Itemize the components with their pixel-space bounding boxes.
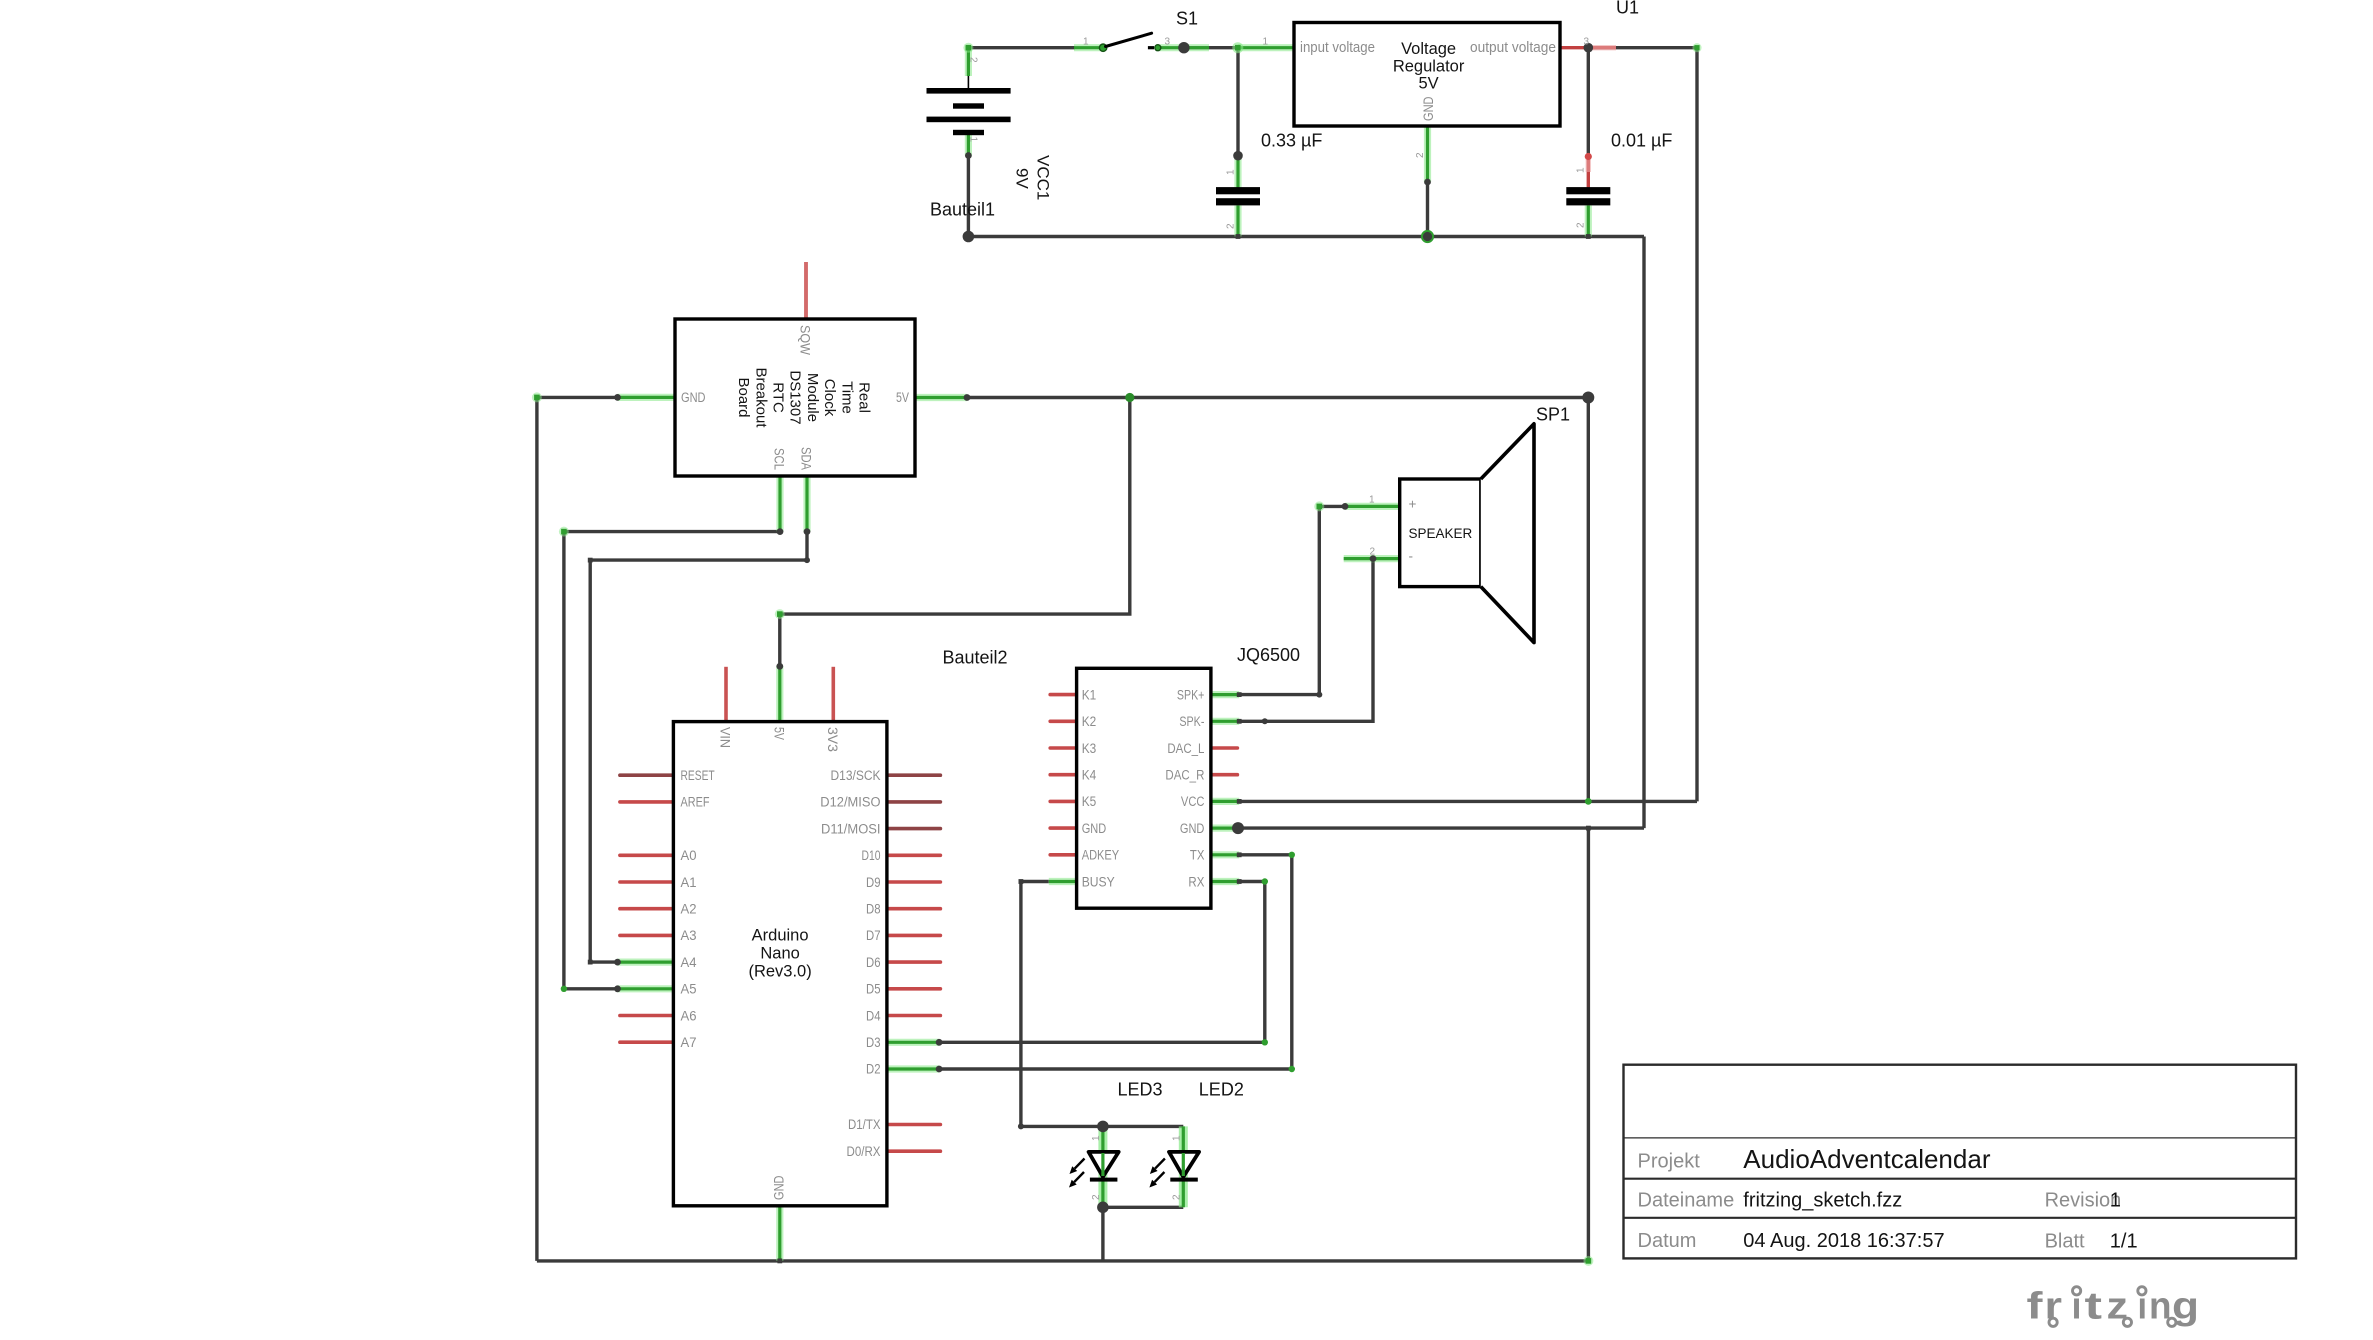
battery pin 1 green [965, 131, 972, 156]
switch pin 1 green [1074, 44, 1101, 51]
svg-text:D6: D6 [866, 955, 881, 970]
node C1 top dot [1233, 151, 1243, 161]
svg-text:Arduino: Arduino [752, 927, 809, 945]
svg-text:fritzing_sketch.fzz: fritzing_sketch.fzz [1743, 1190, 1902, 1212]
labels JQ right pins [1165, 687, 1204, 889]
RTC module box [675, 319, 915, 476]
C1 pin 2 green [1234, 206, 1241, 237]
svg-text:-: - [1409, 549, 1414, 564]
svg-text:AudioAdventcalendar: AudioAdventcalendar [1743, 1144, 1991, 1174]
label switch pin 3 [1165, 36, 1171, 47]
svg-text:A2: A2 [681, 902, 697, 917]
svg-text:1: 1 [1576, 167, 1587, 173]
node RX corner green [1262, 878, 1268, 884]
node C1 bottom bus [1236, 234, 1241, 239]
arduino D8 pin [887, 907, 941, 911]
svg-text:1: 1 [967, 137, 978, 143]
label arduino name [748, 927, 811, 981]
wire top bus corner down to JQ gnd line [1642, 237, 1645, 829]
wire LED cathode to bottom bus [1101, 1207, 1104, 1261]
label VCC1 9V [1013, 155, 1053, 200]
label RTC SDA [799, 447, 814, 470]
wire JQ VCC line [1239, 800, 1697, 803]
node SPK+ pin end [1237, 692, 1242, 697]
svg-text:3: 3 [1584, 36, 1590, 47]
svg-text:3V3: 3V3 [825, 727, 840, 752]
label S1 [1176, 9, 1198, 29]
svg-text:5V: 5V [1419, 75, 1439, 93]
node TX pin end [1237, 852, 1242, 857]
svg-text:GND: GND [681, 390, 706, 405]
label C1 pin 2 [1225, 223, 1236, 229]
svg-text:A7: A7 [681, 1035, 697, 1050]
svg-text:K1: K1 [1082, 687, 1097, 702]
arduino A5 pin green [618, 985, 674, 992]
svg-text:3: 3 [1165, 36, 1171, 47]
svg-text:9V: 9V [1013, 168, 1032, 189]
fritzing logo [2027, 1286, 2200, 1328]
svg-text:D12/MISO: D12/MISO [820, 795, 880, 810]
node SPK- pin end [1237, 719, 1242, 724]
node U1 output corner green [1692, 43, 1701, 52]
svg-text:Datum: Datum [1638, 1230, 1697, 1252]
label battery pin 1 [967, 137, 978, 143]
JQ K1 pin [1050, 693, 1076, 697]
svg-text:2: 2 [1415, 152, 1426, 158]
svg-text:A5: A5 [681, 982, 697, 997]
wire 5V rail RTC to SP corner [967, 396, 1588, 399]
arduino AREF pin [620, 800, 674, 804]
svg-text:RX: RX [1188, 874, 1204, 889]
speaker pin 2 green [1344, 555, 1400, 562]
regulator gnd pin green [1424, 126, 1431, 182]
label LED2 pin 1 [1171, 1135, 1182, 1141]
svg-text:Bauteil2: Bauteil2 [943, 648, 1008, 668]
svg-text:D11/MOSI: D11/MOSI [821, 821, 881, 836]
title block texts [1638, 1144, 2138, 1253]
svg-text:DAC_R: DAC_R [1165, 768, 1204, 783]
label regulator pin 1 [1263, 36, 1269, 47]
wire JQ GND line [1238, 826, 1644, 829]
LED2 green wire [1179, 1126, 1188, 1207]
LED2 symbol [1149, 1152, 1199, 1188]
label speaker plus [1409, 497, 1417, 512]
wire output node down to C2 [1587, 48, 1590, 156]
svg-text:K3: K3 [1082, 741, 1097, 756]
node SDA pin end [804, 528, 811, 535]
wire JQ TX to arduino D2 [939, 855, 1292, 1069]
node arduino 5V corner green [775, 609, 785, 619]
wire SPK+ net [1239, 506, 1345, 694]
wire 5V corner down to JQ VCC line [1587, 398, 1590, 802]
JQ K5 pin [1050, 800, 1076, 804]
svg-text:2: 2 [1576, 222, 1587, 228]
arduino A0 pin [620, 853, 674, 857]
label C2 pin 2 [1576, 222, 1587, 228]
arduino VIN pin red [724, 667, 728, 722]
RTC SDA pin green [803, 476, 810, 532]
wire left gnd rail down [535, 397, 538, 1261]
svg-text:A1: A1 [681, 875, 697, 890]
svg-text:D5: D5 [866, 982, 881, 997]
label SPEAKER [1409, 526, 1473, 541]
regulator input pin green [1238, 44, 1294, 51]
svg-text:Board: Board [735, 377, 752, 417]
C2 pin 2 green [1585, 206, 1592, 237]
svg-text:1: 1 [1091, 1135, 1102, 1141]
wire SCL net [564, 532, 780, 989]
svg-text:1: 1 [1171, 1135, 1182, 1141]
label JQ6500 [1237, 645, 1300, 665]
arduino A7 pin [620, 1040, 674, 1044]
label regulator pin 2 [1415, 152, 1426, 158]
svg-text:1/1: 1/1 [2110, 1231, 2138, 1253]
svg-text:1: 1 [1369, 495, 1375, 506]
battery pin 2 green [965, 46, 972, 76]
svg-text:D9: D9 [866, 875, 881, 890]
node JQ gnd big dot [1232, 822, 1244, 834]
wire regulator output to corner [1588, 46, 1697, 49]
svg-text:SCL: SCL [772, 448, 787, 470]
arduino D12/MISO pin [887, 800, 941, 804]
JQ SPK- pin green [1211, 718, 1239, 725]
C1 pin 1 green [1234, 156, 1241, 188]
svg-text:Dateiname: Dateiname [1638, 1190, 1735, 1212]
arduino nano box [673, 722, 887, 1206]
arduino GND pin green wire [776, 1206, 783, 1261]
svg-text:Regulator: Regulator [1393, 57, 1465, 75]
arduino 5V pin green [776, 666, 783, 721]
wire JQ RX to arduino D3 [939, 882, 1265, 1043]
svg-text:0.33 µF: 0.33 µF [1261, 130, 1322, 150]
node SPK+ upper corner green [1314, 501, 1324, 511]
svg-text:output voltage: output voltage [1470, 40, 1556, 56]
node switch output dot [1178, 42, 1189, 53]
label 0.33 uF [1261, 130, 1322, 150]
label RTC 5V [896, 390, 909, 405]
svg-text:AREF: AREF [681, 795, 710, 810]
labels JQ left pins [1082, 687, 1120, 889]
node 5V rail SP corner big dot [1582, 392, 1594, 404]
svg-text:04 Aug. 2018 16:37:57: 04 Aug. 2018 16:37:57 [1743, 1230, 1944, 1252]
node regulator input junction [1232, 42, 1243, 53]
node RTC gnd corner green [532, 392, 542, 402]
voltage regulator U1 box [1294, 23, 1560, 127]
svg-text:Projekt: Projekt [1638, 1150, 1701, 1172]
arduino D2 pin green [887, 1065, 939, 1072]
svg-text:LED3: LED3 [1118, 1080, 1163, 1100]
svg-text:+: + [1409, 497, 1417, 512]
arduino 3V3 pin red [831, 667, 835, 722]
svg-text:BUSY: BUSY [1082, 874, 1115, 889]
node A5 pin end [614, 985, 621, 992]
svg-text:D13/SCK: D13/SCK [831, 768, 881, 783]
label switch pin 1 [1083, 36, 1089, 47]
svg-text:Time: Time [838, 381, 855, 414]
title block frame [1624, 1065, 2297, 1259]
svg-text:2: 2 [1370, 547, 1376, 558]
label C2 pin 1 [1576, 167, 1587, 173]
label Bauteil1 [930, 199, 995, 219]
svg-text:1: 1 [2110, 1190, 2121, 1212]
svg-text:Blatt: Blatt [2045, 1231, 2085, 1253]
LED3 symbol [1069, 1152, 1119, 1188]
node D3 pin end [936, 1039, 943, 1046]
svg-text:RTC: RTC [770, 382, 787, 413]
node regulator output dot [1584, 43, 1594, 53]
svg-text:S1: S1 [1176, 9, 1198, 29]
node RTC 5V pin end [964, 394, 971, 401]
capacitor C2 0.01uF plates [1566, 187, 1610, 205]
svg-text:Clock: Clock [821, 379, 838, 417]
label regulator GND [1421, 96, 1436, 121]
arduino A6 pin [620, 1014, 674, 1018]
label U1 [1616, 0, 1639, 18]
node gnd bus junction ring [1422, 231, 1433, 242]
node RX pin end [1237, 879, 1242, 884]
node speaker pin1 end [1342, 503, 1349, 510]
arduino D9 pin [887, 880, 941, 884]
arduino A4 pin green [618, 958, 674, 965]
node speaker pin2 tap [1370, 555, 1377, 562]
svg-text:5V: 5V [771, 727, 786, 740]
node SPK+ corner [1316, 692, 1322, 698]
svg-text:1: 1 [1225, 169, 1236, 175]
node D3 corner green [1262, 1039, 1268, 1045]
label arduino 3V3 [825, 727, 840, 752]
svg-text:Module: Module [804, 373, 821, 422]
node LED3 anode junction [1097, 1121, 1109, 1133]
node D2 pin end [936, 1066, 943, 1073]
label RTC GND [681, 390, 706, 405]
label Bauteil2 [943, 648, 1008, 668]
speaker SP1 symbol [1400, 424, 1534, 643]
svg-text:f: f [2027, 1286, 2043, 1328]
label LED3 pin 2 [1091, 1194, 1102, 1200]
JQ K2 pin [1050, 719, 1076, 723]
svg-text:(Rev3.0): (Rev3.0) [748, 962, 811, 980]
label LED2 [1199, 1080, 1244, 1100]
wire battery+ to switch [968, 46, 1075, 49]
wire SPK- net [1239, 559, 1373, 722]
node arduino gnd bus [777, 1259, 782, 1264]
arduino D7 pin [887, 934, 941, 938]
svg-text:SDA: SDA [799, 447, 814, 470]
label regulator pin 3 [1584, 36, 1590, 47]
wire RTC gnd to left rail [537, 396, 618, 399]
svg-text:JQ6500: JQ6500 [1237, 645, 1300, 665]
svg-text:SPK+: SPK+ [1177, 687, 1205, 702]
battery VCC1 symbol [927, 76, 1011, 135]
label input voltage [1300, 40, 1375, 56]
arduino D11/MOSI pin [887, 827, 941, 831]
svg-text:A6: A6 [681, 1008, 697, 1023]
label output voltage [1470, 40, 1556, 56]
wire input node down to C1 [1236, 48, 1239, 156]
node SCL pin end [777, 528, 784, 535]
wire bottom gnd bus [537, 1259, 1589, 1262]
svg-text:TX: TX [1190, 848, 1205, 863]
svg-text:SP1: SP1 [1536, 405, 1570, 425]
svg-text:D2: D2 [866, 1062, 881, 1077]
node SDA corner [588, 558, 593, 563]
wire top gnd bus [968, 235, 1644, 238]
svg-text:SQW: SQW [798, 325, 813, 355]
svg-text:K4: K4 [1082, 768, 1097, 783]
svg-text:GND: GND [1421, 96, 1436, 121]
svg-text:1: 1 [1263, 36, 1269, 47]
JQ RX pin green [1211, 878, 1239, 885]
label RTC SCL [772, 448, 787, 470]
label arduino 5V [771, 727, 786, 740]
C2 pin 1 red [1585, 153, 1592, 188]
svg-text:GND: GND [1180, 821, 1205, 836]
svg-text:D4: D4 [866, 1008, 881, 1023]
svg-text:LED2: LED2 [1199, 1080, 1244, 1100]
node VCC pin end [1237, 799, 1242, 804]
node SPK- bend [1262, 718, 1268, 724]
svg-text:0.01 µF: 0.01 µF [1611, 130, 1672, 150]
svg-text:SPEAKER: SPEAKER [1409, 526, 1473, 541]
JQ VCC pin green [1211, 798, 1239, 805]
labels arduino right pins [820, 768, 881, 1159]
wire JQ BUSY to LED anodes [1021, 882, 1183, 1127]
label C1 pin 1 [1225, 169, 1236, 175]
arduino D13/SCK pin [887, 773, 941, 777]
node arduino 5V pin end [776, 663, 783, 670]
label RTC name [735, 367, 872, 428]
JQ DAC_R pin [1211, 773, 1238, 777]
node BUSY corner [1019, 879, 1024, 884]
wire LED cathodes join [1103, 1206, 1183, 1209]
svg-text:D10: D10 [862, 848, 881, 863]
label battery pin 2 [967, 57, 978, 63]
svg-text:A3: A3 [681, 928, 697, 943]
svg-text:VCC1: VCC1 [1034, 155, 1053, 200]
arduino D6 pin [887, 960, 941, 964]
JQ6500 box [1077, 668, 1211, 908]
node regulator gnd pin end [1424, 179, 1431, 186]
arduino RESET pin [620, 773, 674, 777]
node battery pin1 end [965, 152, 972, 159]
svg-text:2: 2 [1171, 1194, 1182, 1200]
wire regulator gnd pin to bus [1426, 182, 1429, 237]
svg-text:K5: K5 [1082, 794, 1097, 809]
node SCL lower corner green [561, 986, 567, 992]
wire switch pin3 to regulator input node [1184, 46, 1238, 49]
label SP1 [1536, 405, 1570, 425]
wire SDA net [590, 532, 807, 963]
svg-text:ADKEY: ADKEY [1082, 848, 1120, 863]
RTC SQW pin red [804, 262, 808, 319]
node TX corner green [1289, 852, 1295, 858]
JQ TX pin green [1211, 851, 1239, 858]
LED3 green wire [1098, 1126, 1107, 1207]
arduino D5 pin [887, 987, 941, 991]
wire bottom bus up to JQ gnd line [1587, 828, 1590, 1261]
node SDA bend [804, 557, 810, 563]
arduino A2 pin [620, 907, 674, 911]
svg-text:2: 2 [967, 57, 978, 63]
label RTC SQW [798, 325, 813, 355]
label arduino GND [772, 1175, 787, 1200]
svg-text:Real: Real [856, 382, 873, 413]
svg-text:VIN: VIN [718, 727, 733, 748]
node battery top corner green [963, 43, 973, 53]
node battery bus junction [963, 231, 975, 243]
label LED3 [1118, 1080, 1163, 1100]
svg-text:GND: GND [772, 1175, 787, 1200]
RTC gnd pin green [618, 394, 676, 401]
node D2 corner green [1289, 1066, 1295, 1072]
node A4 pin end [614, 959, 621, 966]
svg-text:Breakout: Breakout [752, 367, 769, 428]
node SDA lower corner [588, 960, 593, 965]
svg-text:SPK-: SPK- [1179, 714, 1204, 729]
node RTC gnd pin end [614, 394, 621, 401]
svg-text:A0: A0 [681, 848, 697, 863]
label LED3 pin 1 [1091, 1135, 1102, 1141]
capacitor C1 0.33uF plates [1216, 187, 1260, 205]
svg-text:D7: D7 [866, 928, 881, 943]
JQ GND pin green [1211, 824, 1238, 831]
node 5V rail arduino junction [1125, 393, 1134, 402]
JQ K3 pin [1050, 746, 1076, 750]
regulator output pin red [1560, 46, 1616, 49]
arduino D0/RX pin [887, 1149, 941, 1153]
svg-text:RESET: RESET [681, 768, 715, 783]
node JQ gnd bus junction [1586, 826, 1591, 831]
svg-text:2: 2 [1091, 1194, 1102, 1200]
label speaker pin 2 [1370, 547, 1376, 558]
label regulator name [1393, 40, 1465, 93]
svg-text:5V: 5V [896, 390, 909, 405]
JQ K4 pin [1050, 773, 1076, 777]
switch pin 3 green [1160, 44, 1209, 51]
svg-text:K2: K2 [1082, 714, 1097, 729]
svg-text:U1: U1 [1616, 0, 1639, 18]
wire 5V rail down to arduino feed [780, 398, 1130, 667]
svg-text:2: 2 [1225, 223, 1236, 229]
wire U1 output corner down to VCC line [1695, 48, 1698, 802]
JQ DAC_L pin [1211, 746, 1238, 750]
label 0.01 uF [1611, 130, 1672, 150]
svg-text:D0/RX: D0/RX [847, 1144, 881, 1159]
switch S1 symbol [1099, 33, 1160, 51]
label speaker minus [1409, 549, 1414, 564]
arduino D3 pin green [887, 1039, 939, 1046]
svg-text:DS1307: DS1307 [787, 370, 804, 424]
svg-text:D1/TX: D1/TX [848, 1117, 881, 1132]
JQ ADKEY pin [1050, 853, 1076, 857]
node BUSY lower corner [1018, 1123, 1024, 1129]
JQ BUSY pin green [1049, 878, 1077, 885]
label LED2 pin 2 [1171, 1194, 1182, 1200]
svg-text:t: t [2085, 1286, 2103, 1328]
svg-text:Voltage: Voltage [1401, 40, 1456, 58]
svg-text:Bauteil1: Bauteil1 [930, 199, 995, 219]
node LED cathode junction [1097, 1202, 1109, 1214]
svg-text:input voltage: input voltage [1300, 40, 1375, 56]
RTC 5V pin green [915, 394, 967, 401]
label arduino VIN [718, 727, 733, 748]
JQ GND left pin [1050, 826, 1076, 830]
svg-text:DAC_L: DAC_L [1167, 741, 1204, 756]
arduino D4 pin [887, 1014, 941, 1018]
wire battery- down to gnd bus [967, 156, 970, 237]
svg-text:D8: D8 [866, 902, 881, 917]
arduino A1 pin [620, 880, 674, 884]
